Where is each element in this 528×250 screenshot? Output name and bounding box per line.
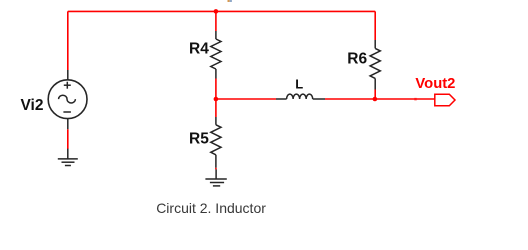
svg-text:Circuit 2. Inductor: Circuit 2. Inductor (156, 200, 266, 216)
wire R6 to right node (374, 90, 376, 100)
wire inductor to right node (325, 98, 375, 100)
svg-text:R5: R5 (189, 130, 209, 147)
wire R5 to ground (215, 168, 217, 170)
svg-text:R6: R6 (347, 51, 367, 68)
wire top rail (68, 10, 375, 12)
resistor R6 (370, 40, 380, 90)
svg-text:R4: R4 (189, 41, 209, 58)
resistor R4 (211, 31, 221, 79)
wire right node to port (375, 98, 435, 100)
port Vout2 (435, 94, 455, 106)
wire mid node to R5 (215, 99, 217, 117)
inductor L (276, 94, 325, 99)
svg-text:Vi2: Vi2 (21, 97, 44, 114)
ground under Vi2 (58, 149, 78, 166)
wire R4 to mid node (215, 79, 217, 100)
wire left vertical drop (67, 11, 69, 70)
node mid junction (214, 97, 219, 102)
ground under R5 (205, 169, 226, 186)
wire top to R4 (215, 11, 217, 31)
svg-text:Vout2: Vout2 (415, 76, 455, 92)
wire top rail to R6 (374, 11, 376, 40)
svg-text:L: L (295, 77, 303, 92)
wire mid node to inductor (216, 98, 276, 100)
wire source to ground (67, 129, 69, 149)
artifact top edge (228, 0, 230, 2)
port pin nub (414, 98, 416, 100)
resistor R5 (211, 117, 221, 168)
source Vi2 (48, 70, 87, 129)
node right junction (373, 97, 378, 102)
node junction top of R4 (214, 9, 219, 14)
